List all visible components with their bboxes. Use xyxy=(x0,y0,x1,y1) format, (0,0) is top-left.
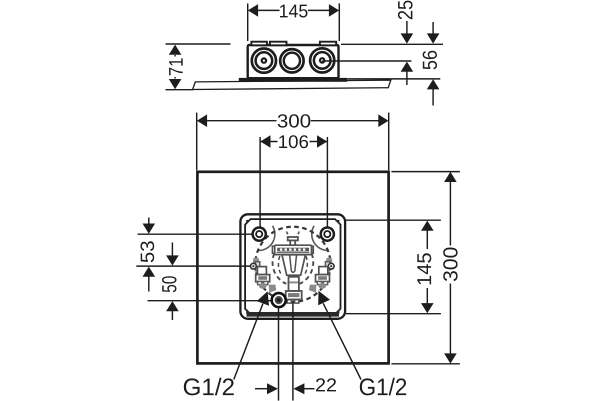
dimension 56 (right) xyxy=(432,22,434,106)
left valve port tab xyxy=(255,262,259,271)
label 106 (dim) xyxy=(279,135,308,148)
left extension line (bottom hole row) xyxy=(148,300,272,302)
cartridge foot xyxy=(286,291,302,300)
right valve foot 1 xyxy=(317,281,321,284)
left valve foot 1 xyxy=(258,281,262,284)
tab 2 on box top xyxy=(270,42,287,46)
bracket bar body xyxy=(275,245,312,254)
cartridge foot dark band xyxy=(288,293,299,297)
left extension line (hole row) xyxy=(138,233,252,235)
left valve upper body xyxy=(257,267,266,275)
right valve boss blob xyxy=(326,258,332,264)
label 22 (dim) xyxy=(316,378,336,391)
left valve boss blob xyxy=(253,258,259,264)
boss arc around TL screw hole xyxy=(258,226,275,251)
centerline from right port to right dims xyxy=(322,60,411,62)
small dashed ear left xyxy=(287,232,290,237)
right valve upper body xyxy=(319,267,328,275)
outer square 300x300 xyxy=(197,172,388,364)
G1/2 leader arrow right xyxy=(318,291,330,306)
label 50 (dim, rotated) xyxy=(162,276,177,292)
left G1/2 port ring xyxy=(251,263,257,269)
bracket bar dark band xyxy=(277,248,309,252)
dashed bell left xyxy=(273,254,287,284)
rounded square outer xyxy=(240,214,345,318)
22 extension line left xyxy=(278,308,280,401)
cartridge inner mark xyxy=(289,281,298,283)
middle connection port (side view) xyxy=(280,49,303,72)
right connection port (side view) xyxy=(310,48,334,72)
label 71 (dim, rotated) xyxy=(169,58,183,75)
106 extension tail left (inside plate) xyxy=(259,215,261,228)
label 145 (right dim, rotated) xyxy=(417,253,431,284)
label 53 (dim, rotated) xyxy=(141,241,155,262)
bar lower inner line xyxy=(277,252,310,254)
left valve foot 2 xyxy=(264,281,268,284)
T-piece stem xyxy=(290,240,295,245)
extension line box top right xyxy=(341,43,443,45)
label 56 (dim, rotated) xyxy=(423,51,437,70)
label 145 (top dim) xyxy=(280,5,307,18)
extension line plate top right xyxy=(347,78,440,80)
dimension 300 (right) xyxy=(391,172,460,364)
right valve bottom blob xyxy=(309,285,317,293)
right valve under blob xyxy=(318,283,326,289)
inner bell dashed arc left xyxy=(278,256,280,274)
tab 1 on box top xyxy=(251,42,267,46)
bar band white ticks xyxy=(280,248,305,250)
right valve flange xyxy=(316,275,330,282)
dimension 22 (bottom) xyxy=(255,388,315,390)
corner wedge TL xyxy=(246,220,250,224)
center bottom cartridge xyxy=(289,277,299,291)
corner wedge BL xyxy=(246,309,250,313)
dimension 71 (left) xyxy=(166,44,231,90)
tab 3 on box top xyxy=(320,42,336,46)
106 extension tail right (inside plate) xyxy=(326,215,328,228)
G1/2 leader line right xyxy=(323,303,361,379)
T-piece cap xyxy=(288,237,298,240)
left valve inner dark xyxy=(258,276,267,280)
right valve port tab xyxy=(325,262,329,271)
22 extension line right xyxy=(292,302,294,401)
dimension 53 (left) xyxy=(148,218,150,292)
boss arc around TR screw hole xyxy=(312,226,329,251)
shower plate (side view slab) xyxy=(193,80,391,89)
dashed bell right xyxy=(300,254,314,284)
label 300 (right dim, rotated) xyxy=(443,247,457,281)
small dashed ear right xyxy=(296,232,299,237)
label G1/2 right xyxy=(360,378,406,396)
dimension 50 (left) xyxy=(171,243,173,321)
cartridge foot tab left xyxy=(287,300,291,303)
dark bottom rail xyxy=(247,312,340,317)
dimension 25 (right) xyxy=(406,21,408,85)
left extension line (port row) xyxy=(136,265,250,267)
bottom screw hole xyxy=(272,293,286,307)
bracket bar end cap right xyxy=(310,246,313,253)
corner wedge TR xyxy=(335,220,339,224)
label 25 (dim, rotated) xyxy=(398,1,413,20)
inner bell dashed arc right xyxy=(305,256,307,274)
corner wedge BR xyxy=(335,309,339,313)
funnel inner cone xyxy=(290,255,297,272)
left valve bottom blob xyxy=(269,285,277,293)
dimension 145 (top) xyxy=(248,3,340,41)
basic set housing box xyxy=(248,45,339,78)
dimension 145 (right inner) xyxy=(343,220,441,314)
right valve foot 2 xyxy=(323,281,327,284)
left valve under blob xyxy=(259,283,267,289)
bracket bar end cap left xyxy=(272,246,275,253)
housing flange bar (dark) xyxy=(239,78,347,82)
funnel trapezoid xyxy=(282,255,305,275)
label 300 (top dim) xyxy=(278,114,311,127)
label G1/2 left xyxy=(184,378,234,396)
left connection port (side view) xyxy=(252,49,276,73)
G1/2 leader arrow left xyxy=(257,291,269,305)
screw hole TR xyxy=(321,228,334,241)
screw hole TL xyxy=(253,228,266,241)
right valve inner dark xyxy=(318,276,327,280)
G1/2 leader line left xyxy=(234,304,263,380)
left valve flange xyxy=(256,275,270,282)
rounded square inner xyxy=(245,219,340,314)
dimension 106 (top inner) xyxy=(260,137,327,227)
big dashed circle (cut-out) xyxy=(255,227,330,302)
dimension 300 (top) xyxy=(197,113,389,171)
cartridge foot tab right xyxy=(295,300,299,303)
right G1/2 port ring xyxy=(328,263,334,269)
